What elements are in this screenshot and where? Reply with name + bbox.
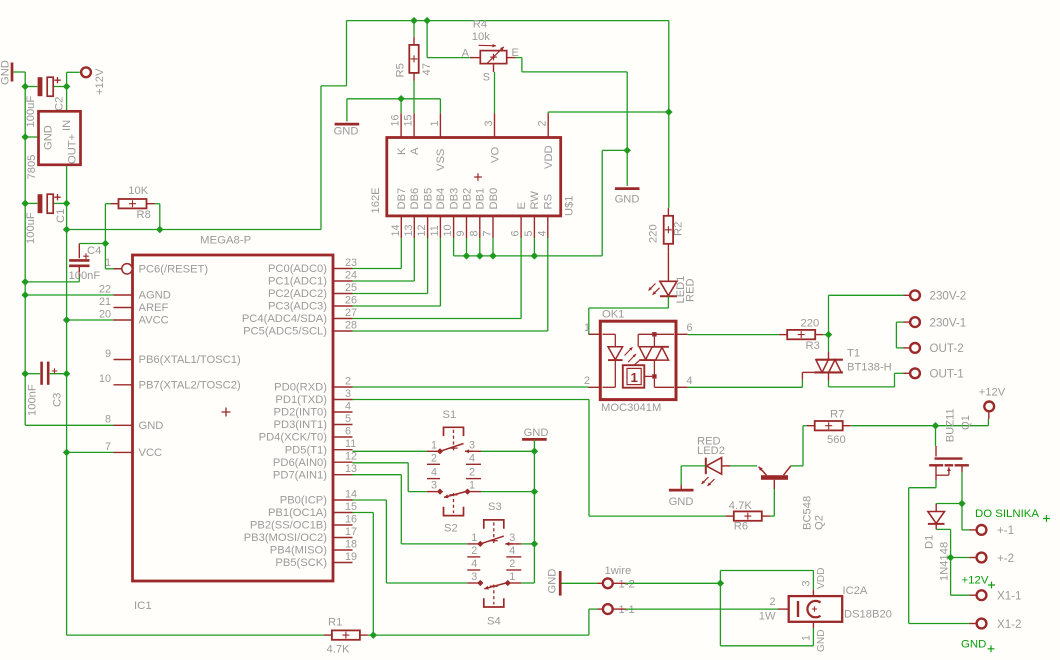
pin 15 PB1(OC1A) IC1 <box>268 501 357 519</box>
svg-text:6: 6 <box>687 322 693 334</box>
svg-text:47: 47 <box>421 63 433 75</box>
wire +5V row to R8 and LCD riser <box>67 21 669 230</box>
svg-text:GND: GND <box>615 193 640 205</box>
svg-text:DB2: DB2 <box>461 188 473 210</box>
svg-text:15: 15 <box>403 114 415 126</box>
svg-text:OUT-1: OUT-1 <box>930 368 964 381</box>
svg-text:25: 25 <box>345 282 357 294</box>
pin 25 PC2(ADC2) IC1 <box>268 282 357 300</box>
svg-text:7805: 7805 <box>26 155 38 180</box>
junction R5 top <box>410 17 417 24</box>
junction GND AGND <box>21 291 28 298</box>
svg-text:162E: 162E <box>370 187 382 213</box>
svg-text:100uF: 100uF <box>25 96 37 128</box>
triac T1 BT138-H <box>802 352 843 381</box>
svg-text:1wire: 1wire <box>605 565 632 577</box>
svg-text:26: 26 <box>345 294 357 306</box>
led LED2 <box>702 458 731 486</box>
wire C4 top to reset net <box>79 243 105 245</box>
junction GND C1 <box>21 200 28 207</box>
pin 6 PD4(XCK/T0) IC1 <box>259 425 353 443</box>
pin 11 PD5(T1) IC1 <box>285 438 357 456</box>
svg-text:1N4148: 1N4148 <box>939 542 951 581</box>
svg-text:E: E <box>516 202 528 209</box>
wire +5V vertical rail <box>67 203 324 635</box>
svg-text:1: 1 <box>105 257 111 269</box>
svg-text:2: 2 <box>584 375 590 387</box>
pad OUT-2 <box>910 343 920 353</box>
junction LCD GND riser <box>623 147 630 154</box>
pad stub 1-2 left <box>598 582 604 584</box>
svg-text:11: 11 <box>345 438 356 450</box>
pin 16 K U$1 <box>390 113 408 155</box>
ic IC2A DS18B20 body <box>789 596 843 622</box>
pad 1-1 <box>603 604 613 614</box>
junction +5V R2 <box>665 108 672 115</box>
pad stub X1-1 <box>970 594 977 596</box>
optocoupler OK1 MOC3041M <box>600 321 676 399</box>
wire triac MT2 to 230V-2 <box>829 295 904 334</box>
resistor R1 <box>324 630 368 639</box>
junction R8 +5V <box>156 226 163 233</box>
pad 1-2 <box>603 578 613 588</box>
svg-text:18: 18 <box>345 538 357 550</box>
capacitor C2 <box>38 77 61 96</box>
svg-text:3: 3 <box>469 439 475 451</box>
junction reset C4 <box>102 240 109 247</box>
label +12V net <box>962 575 995 589</box>
wire R8 right to +5V row <box>155 204 160 230</box>
svg-text:GND: GND <box>816 629 827 652</box>
wire pin25 to DB5 <box>353 238 428 294</box>
wire OK1 pin6 to R3 <box>688 334 780 336</box>
wire pin23 to DB7 <box>353 238 402 269</box>
svg-text:AREF: AREF <box>139 302 169 314</box>
wire OK1 pin4 to triac gate <box>688 380 803 388</box>
resistor R8 <box>111 199 155 208</box>
svg-text:22: 22 <box>99 283 111 295</box>
pin 1 PC6(/RESET) IC1 <box>105 257 208 275</box>
wire Q1 source to X1-2 <box>909 480 970 624</box>
pin 6 OK1 <box>676 322 693 334</box>
pin 10 DB3 U$1 <box>442 188 460 238</box>
svg-text:4: 4 <box>536 230 548 236</box>
svg-text:4: 4 <box>345 400 351 412</box>
pin 1 OK1 <box>584 322 600 334</box>
pad +12V <box>984 402 994 412</box>
pad stub 1-1 left <box>598 608 604 610</box>
wire C2 row to +12V pad <box>25 72 80 86</box>
junction GND 7805 <box>21 133 28 140</box>
svg-text:10: 10 <box>442 224 454 236</box>
wire pin24 to DB6 <box>353 238 415 281</box>
svg-text:16: 16 <box>345 513 357 525</box>
pin 2 PD0(RXD) IC1 <box>274 375 352 393</box>
svg-text:6: 6 <box>510 230 522 236</box>
capacitor C3 <box>25 362 66 385</box>
svg-text:R5: R5 <box>395 63 407 77</box>
svg-text:1: 1 <box>631 370 638 385</box>
junction GND C2 <box>21 83 28 90</box>
resistor R3 <box>779 330 823 339</box>
svg-text:PD5(T1): PD5(T1) <box>285 444 328 456</box>
pin 2 OK1 <box>584 375 600 387</box>
junction S3 rail <box>531 540 538 547</box>
wire 7805 OUT to C1 <box>66 165 68 204</box>
svg-text:8: 8 <box>468 230 480 236</box>
pad X1-2 <box>977 619 987 629</box>
switch S2 <box>427 467 481 516</box>
svg-text:AGND: AGND <box>139 290 171 302</box>
pin 21 AREF IC1 <box>99 296 169 314</box>
diode D1 1N4148 <box>928 504 945 530</box>
pad stub 230V-2 <box>904 294 911 296</box>
svg-text:10k: 10k <box>472 31 490 43</box>
svg-text:14: 14 <box>390 224 402 236</box>
resistor R5 <box>409 37 418 81</box>
junction +5V VCC <box>63 449 70 456</box>
svg-text:PB5(SCK): PB5(SCK) <box>275 557 327 569</box>
svg-text:1: 1 <box>429 120 441 126</box>
wire LED1 cathode to OK1 pin1 <box>589 296 669 334</box>
wire pin11 to S1 <box>353 450 428 452</box>
svg-text:R6: R6 <box>734 521 748 533</box>
svg-text:DB4: DB4 <box>435 188 447 210</box>
junction +5V AVCC <box>63 316 70 323</box>
svg-text:BUZ11: BUZ11 <box>945 408 957 442</box>
svg-text:DB6: DB6 <box>409 188 421 210</box>
svg-text:GND: GND <box>547 569 559 594</box>
pin 13 DB6 U$1 <box>403 188 421 238</box>
wire triac MT1 to OUT-1 <box>829 373 904 387</box>
ground above switch rail <box>522 427 548 444</box>
svg-text:PC5(ADC5/SCL): PC5(ADC5/SCL) <box>243 326 327 338</box>
junction RW GND <box>531 252 538 259</box>
junction DB0 GND <box>489 252 496 259</box>
svg-text:2: 2 <box>537 120 549 126</box>
pad stub X1-2 <box>970 623 977 625</box>
wire LED2 anode to Q2 emitter <box>730 465 757 467</box>
wire pin28 to RS <box>353 238 548 331</box>
svg-text:PC4(ADC4/SDA): PC4(ADC4/SDA) <box>242 313 327 325</box>
wire LCD VDD to +5V <box>548 112 669 113</box>
pad stub +-2 <box>970 557 977 559</box>
svg-text:RED: RED <box>685 278 697 302</box>
pin 8 GND IC1 <box>105 414 163 432</box>
svg-text:1: 1 <box>584 322 590 334</box>
pin 16 PB2(SS/OC1B) IC1 <box>250 513 357 531</box>
svg-text:GND: GND <box>961 638 986 650</box>
svg-text:15: 15 <box>345 501 357 513</box>
wire pin14 to S4 <box>353 500 468 583</box>
wire +12V net to pad +-2 <box>951 557 970 559</box>
pad stub +-1 <box>970 529 977 531</box>
switch S3 <box>467 520 521 557</box>
svg-text:220: 220 <box>648 224 660 243</box>
junction GND C4 <box>21 278 28 285</box>
junction DB1 GND <box>476 252 483 259</box>
svg-text:9: 9 <box>105 348 111 360</box>
svg-text:IC1: IC1 <box>134 600 152 612</box>
svg-text:PB1(OC1A): PB1(OC1A) <box>268 507 327 519</box>
junction +5V C3 <box>63 370 70 377</box>
svg-text:PC1(ADC1): PC1(ADC1) <box>268 276 327 288</box>
svg-text:PB7(XTAL2/TOSC2): PB7(XTAL2/TOSC2) <box>139 380 241 392</box>
ground below LCD <box>615 150 640 205</box>
pad +-1 <box>977 525 987 535</box>
wire R4 wiper S to LCD VO <box>494 72 496 113</box>
wire S1 pin3 to ground rail <box>481 450 534 452</box>
svg-text:MEGA8-P: MEGA8-P <box>200 235 251 247</box>
pin 14 PB0(ICP) IC1 <box>280 488 357 506</box>
svg-text:K: K <box>396 147 408 155</box>
pad 230V-1 <box>910 317 920 327</box>
svg-text:C4: C4 <box>87 245 101 257</box>
pad stub OUT-1 <box>904 372 911 374</box>
junction Q1 drain D1 <box>958 500 965 507</box>
svg-text:DB7: DB7 <box>396 188 408 210</box>
junction R4 rail <box>423 17 430 24</box>
svg-text:28: 28 <box>345 319 357 331</box>
pin 5 RW U$1 <box>523 191 541 238</box>
pad +-2 <box>977 553 987 563</box>
svg-text:23: 23 <box>345 257 357 269</box>
wire pin27 to E <box>353 238 522 319</box>
svg-text:DB3: DB3 <box>448 188 460 210</box>
svg-text:5: 5 <box>345 413 351 425</box>
pin 3 VDD IC2A <box>801 567 828 596</box>
svg-text:R1: R1 <box>328 617 342 629</box>
svg-text:DB5: DB5 <box>422 188 434 210</box>
pin 9 DB2 U$1 <box>455 188 473 238</box>
pad +12V top <box>81 67 91 77</box>
svg-text:2: 2 <box>345 375 351 387</box>
wire LCD ground to K and VSS <box>347 99 441 113</box>
pin 1 GND IC2A <box>801 622 828 652</box>
svg-text:13: 13 <box>345 463 357 475</box>
junction S1 rail <box>531 448 538 455</box>
junction LCD K GND <box>397 95 404 102</box>
pin 18 PB4(MISO) IC1 <box>270 538 357 556</box>
svg-text:1W: 1W <box>759 611 776 623</box>
junction R3 triac <box>825 331 832 338</box>
svg-text:24: 24 <box>345 269 357 281</box>
svg-text:PC3(ADC3): PC3(ADC3) <box>268 301 327 313</box>
switch S1 <box>427 427 481 464</box>
svg-text:PB3(MOSI/OC2): PB3(MOSI/OC2) <box>244 532 328 544</box>
svg-text:1: 1 <box>509 571 515 583</box>
resistor R7 <box>807 421 851 430</box>
svg-text:R4: R4 <box>473 19 487 31</box>
svg-text:PB6(XTAL1/TOSC1): PB6(XTAL1/TOSC1) <box>139 354 241 366</box>
svg-text:3: 3 <box>483 120 495 126</box>
svg-text:11: 11 <box>429 225 441 236</box>
svg-text:VCC: VCC <box>139 447 163 459</box>
svg-text:2: 2 <box>509 558 515 570</box>
pin 14 DB7 U$1 <box>390 188 408 238</box>
pin 6 E U$1 <box>510 202 528 238</box>
svg-text:PD4(XCK/T0): PD4(XCK/T0) <box>259 432 328 444</box>
ground below LED2 <box>669 485 694 508</box>
svg-text:C1: C1 <box>55 209 67 223</box>
svg-text:21: 21 <box>99 296 111 308</box>
svg-text:3: 3 <box>509 532 515 544</box>
svg-text:16: 16 <box>390 114 402 126</box>
svg-text:AVCC: AVCC <box>139 315 169 327</box>
svg-text:PD0(RXD): PD0(RXD) <box>274 382 327 394</box>
svg-text:12: 12 <box>345 451 357 463</box>
ic U$1 origin cross <box>474 173 482 181</box>
svg-text:4.7K: 4.7K <box>327 644 351 656</box>
svg-text:OUT+: OUT+ <box>67 134 79 164</box>
junction GND C3 <box>21 370 28 377</box>
svg-text:PD6(AIN0): PD6(AIN0) <box>273 457 327 469</box>
svg-text:230V-2: 230V-2 <box>930 290 967 303</box>
svg-text:U$1: U$1 <box>564 195 576 216</box>
wire pin3 to R6 <box>353 400 727 517</box>
wire GND rail left <box>13 72 113 425</box>
svg-text:100nF: 100nF <box>69 270 101 282</box>
svg-text:3: 3 <box>471 571 477 583</box>
svg-text:DS18B20: DS18B20 <box>844 608 892 620</box>
svg-text:DO SILNIKA: DO SILNIKA <box>975 508 1039 520</box>
svg-text:OK1: OK1 <box>602 309 624 321</box>
wire LCD data ground bus <box>454 150 628 256</box>
trimmer potentiometer R4 <box>462 44 519 84</box>
svg-text:PC0(ADC0): PC0(ADC0) <box>268 263 327 275</box>
junction R1 PB1 <box>370 631 377 638</box>
pin 4 PD2(INT0) IC1 <box>274 400 353 418</box>
wire AVCC pin20 <box>67 319 114 321</box>
pin 20 AVCC IC1 <box>99 308 169 326</box>
pin 19 PB5(SCK) IC1 <box>275 551 357 569</box>
junction 1wire power <box>717 580 724 587</box>
junction DB2 GND <box>463 252 470 259</box>
svg-text:GND: GND <box>669 496 694 508</box>
pin 2 VDD U$1 <box>537 113 555 169</box>
ic U$1 LCD 162E body <box>387 138 561 216</box>
svg-text:R3: R3 <box>806 340 820 352</box>
capacitor C1 <box>38 194 61 213</box>
svg-text:+12V: +12V <box>94 68 106 95</box>
svg-text:GND: GND <box>43 125 55 150</box>
junction S2 rail <box>531 488 538 495</box>
svg-text:2: 2 <box>469 467 475 479</box>
svg-text:VDD: VDD <box>816 567 827 589</box>
svg-text:10K: 10K <box>128 185 148 197</box>
pin 10 PB7(XTAL2/TOSC2) IC1 <box>99 373 241 391</box>
svg-text:4: 4 <box>469 452 475 464</box>
svg-text:S2: S2 <box>444 523 458 535</box>
junction +12V motor net <box>947 554 954 561</box>
wire junction down to triac <box>828 335 830 352</box>
wire C4 bottom to GND rail <box>25 277 79 282</box>
wire +12V net to pad X1-1 <box>951 558 970 596</box>
resistor R2 <box>664 208 673 252</box>
svg-text:A: A <box>409 147 421 155</box>
svg-text:GND: GND <box>524 427 549 439</box>
svg-text:9: 9 <box>455 230 467 236</box>
svg-text:LED2: LED2 <box>697 445 725 457</box>
svg-text:+12V: +12V <box>979 386 1006 398</box>
wire 230V-1 OUT-2 bracket <box>896 322 903 348</box>
svg-text:R2: R2 <box>672 222 684 236</box>
ic IC1 MEGA8-P body <box>133 255 334 581</box>
wire LED2 cathode to ground <box>681 466 706 485</box>
wire VCC pin7 <box>67 451 114 453</box>
pad stub +12V <box>988 412 990 419</box>
pin 15 A U$1 <box>403 113 421 155</box>
svg-text:Q2: Q2 <box>814 515 826 530</box>
transistor Q2 BC548 <box>759 466 791 489</box>
wire R4 A to +5V rail <box>427 21 470 58</box>
svg-text:560: 560 <box>827 434 846 446</box>
ic IC1 origin cross <box>222 408 231 417</box>
svg-text:1: 1 <box>431 439 437 451</box>
svg-text:GND: GND <box>0 60 12 85</box>
wire D1 anode to +12V net <box>936 529 950 557</box>
wire pad 1-1 to DS18B20 DQ <box>626 608 779 610</box>
svg-text:VDD: VDD <box>543 145 555 169</box>
wire pad 1-2 to DS18B20 power <box>626 571 814 646</box>
pad stub 230V-1 <box>904 321 911 323</box>
svg-text:MOC3041M: MOC3041M <box>601 402 661 414</box>
wire C1 row <box>25 202 66 204</box>
svg-text:220: 220 <box>801 318 820 330</box>
wire R3 right junction <box>823 334 828 336</box>
svg-text:DB1: DB1 <box>475 188 487 210</box>
wire R5 top to +5V rail <box>413 21 415 37</box>
svg-text:IC2A: IC2A <box>843 585 868 597</box>
wire R2 top to +5V <box>668 112 670 208</box>
wire R4 E to GND riser <box>515 58 627 151</box>
pin 4 OK1 <box>676 375 693 387</box>
wire drain to pad +-1 <box>962 504 970 530</box>
wire R5 bottom to LCD A pin <box>413 81 415 113</box>
svg-text:X1-2: X1-2 <box>997 618 1022 631</box>
pin 8 DB1 U$1 <box>468 188 486 238</box>
svg-text:PC2(ADC2): PC2(ADC2) <box>268 288 327 300</box>
pin 23 PC0(ADC0) IC1 <box>268 257 357 275</box>
pin 7 DB0 U$1 <box>482 188 500 238</box>
wire R1 right to 1-wire data <box>368 609 598 635</box>
svg-text:DB0: DB0 <box>488 188 500 210</box>
junction +12V C2 <box>63 83 70 90</box>
svg-text:3: 3 <box>345 388 351 400</box>
svg-text:VO: VO <box>489 147 501 163</box>
svg-text:1-1: 1-1 <box>619 604 635 616</box>
svg-text:S: S <box>483 72 490 84</box>
svg-text:GND: GND <box>334 126 359 138</box>
svg-text:PD3(INT1): PD3(INT1) <box>274 419 328 431</box>
svg-text:BT138-H: BT138-H <box>847 361 892 373</box>
junction +5V row <box>63 226 70 233</box>
svg-text:IN: IN <box>61 120 73 131</box>
svg-text:7: 7 <box>482 230 494 236</box>
wire R7 right to +12V and Q1 gate <box>851 419 989 426</box>
svg-text:GND: GND <box>139 420 164 432</box>
svg-text:C2: C2 <box>54 97 66 111</box>
pad stub OUT-2 <box>904 347 911 349</box>
svg-text:VSS: VSS <box>435 149 447 171</box>
voltage regulator 7805 <box>39 111 81 165</box>
capacitor C4 <box>69 244 89 277</box>
ground top-left GND symbol <box>0 60 12 85</box>
svg-text:1-2: 1-2 <box>619 578 635 590</box>
pin 3 VO U$1 <box>483 113 501 163</box>
mosfet Q1 BUZ11 <box>929 426 969 480</box>
svg-text:2: 2 <box>431 452 437 464</box>
